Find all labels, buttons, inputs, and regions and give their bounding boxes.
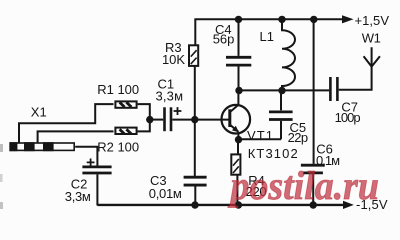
svg-text:22p: 22p xyxy=(288,130,309,145)
svg-text:X1: X1 xyxy=(31,104,47,119)
svg-text:+1,5V: +1,5V xyxy=(355,13,390,28)
svg-text:0,01м: 0,01м xyxy=(149,186,182,201)
svg-text:L1: L1 xyxy=(260,29,274,44)
svg-text:VT1: VT1 xyxy=(247,128,273,143)
svg-text:3,3м: 3,3м xyxy=(65,189,91,204)
svg-text:3,3м: 3,3м xyxy=(156,88,184,103)
svg-text:56p: 56p xyxy=(213,32,235,47)
svg-text:R2 100: R2 100 xyxy=(97,140,139,155)
svg-text:R1 100: R1 100 xyxy=(97,82,139,97)
svg-text:10K: 10K xyxy=(162,52,185,67)
svg-text:100p: 100p xyxy=(335,110,361,125)
svg-text:postila.ru: postila.ru xyxy=(228,163,379,208)
svg-text:W1: W1 xyxy=(362,31,381,46)
